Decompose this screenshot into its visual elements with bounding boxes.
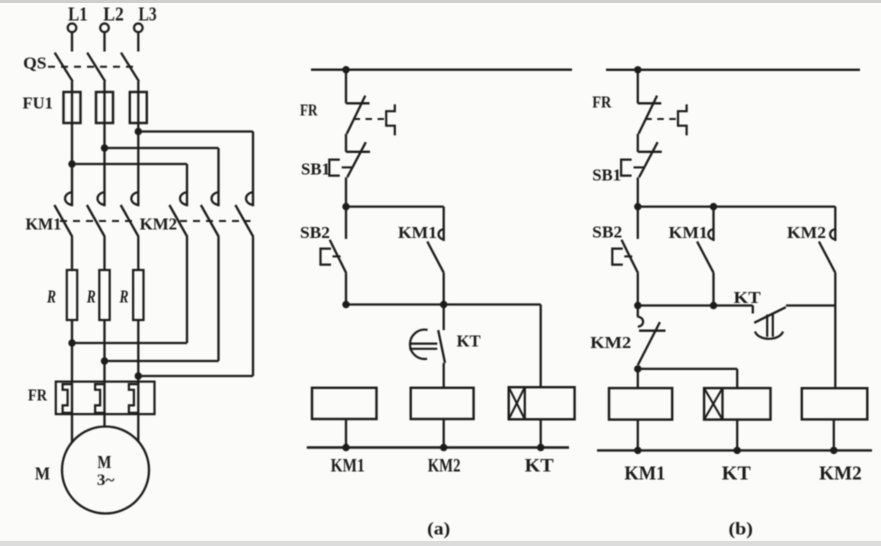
svg-text:QS: QS bbox=[23, 54, 46, 73]
svg-text:R: R bbox=[86, 287, 96, 307]
svg-text:KM2: KM2 bbox=[590, 333, 631, 352]
svg-text:SB1: SB1 bbox=[301, 160, 330, 179]
svg-text:SB2: SB2 bbox=[300, 223, 330, 242]
svg-text:KT: KT bbox=[525, 456, 554, 477]
svg-text:KM2: KM2 bbox=[428, 456, 461, 477]
svg-text:L3: L3 bbox=[139, 4, 157, 26]
svg-text:FR: FR bbox=[300, 101, 318, 120]
svg-text:SB1: SB1 bbox=[592, 166, 621, 185]
svg-text:3~: 3~ bbox=[97, 472, 115, 489]
svg-text:KM1: KM1 bbox=[669, 223, 708, 242]
svg-text:FU1: FU1 bbox=[23, 94, 54, 113]
svg-text:SB2: SB2 bbox=[592, 223, 622, 242]
svg-text:KM2: KM2 bbox=[140, 215, 178, 234]
svg-text:KM2: KM2 bbox=[819, 463, 862, 485]
svg-text:L2: L2 bbox=[103, 4, 124, 26]
svg-text:(a): (a) bbox=[427, 519, 450, 539]
svg-text:KT: KT bbox=[734, 288, 762, 307]
svg-text:L1: L1 bbox=[68, 4, 88, 26]
svg-text:(b): (b) bbox=[729, 519, 754, 539]
svg-text:KT: KT bbox=[722, 463, 752, 485]
svg-text:KM2: KM2 bbox=[787, 223, 826, 242]
svg-text:KM1: KM1 bbox=[398, 223, 437, 242]
svg-text:KT: KT bbox=[457, 332, 482, 351]
svg-text:M: M bbox=[35, 464, 50, 484]
svg-text:KM1: KM1 bbox=[331, 456, 365, 477]
svg-text:R: R bbox=[119, 287, 129, 307]
svg-text:M: M bbox=[97, 452, 111, 472]
svg-text:R: R bbox=[46, 287, 56, 307]
svg-text:FR: FR bbox=[592, 93, 612, 112]
svg-text:FR: FR bbox=[28, 386, 48, 405]
svg-text:KM1: KM1 bbox=[26, 215, 62, 234]
svg-text:KM1: KM1 bbox=[624, 463, 665, 485]
